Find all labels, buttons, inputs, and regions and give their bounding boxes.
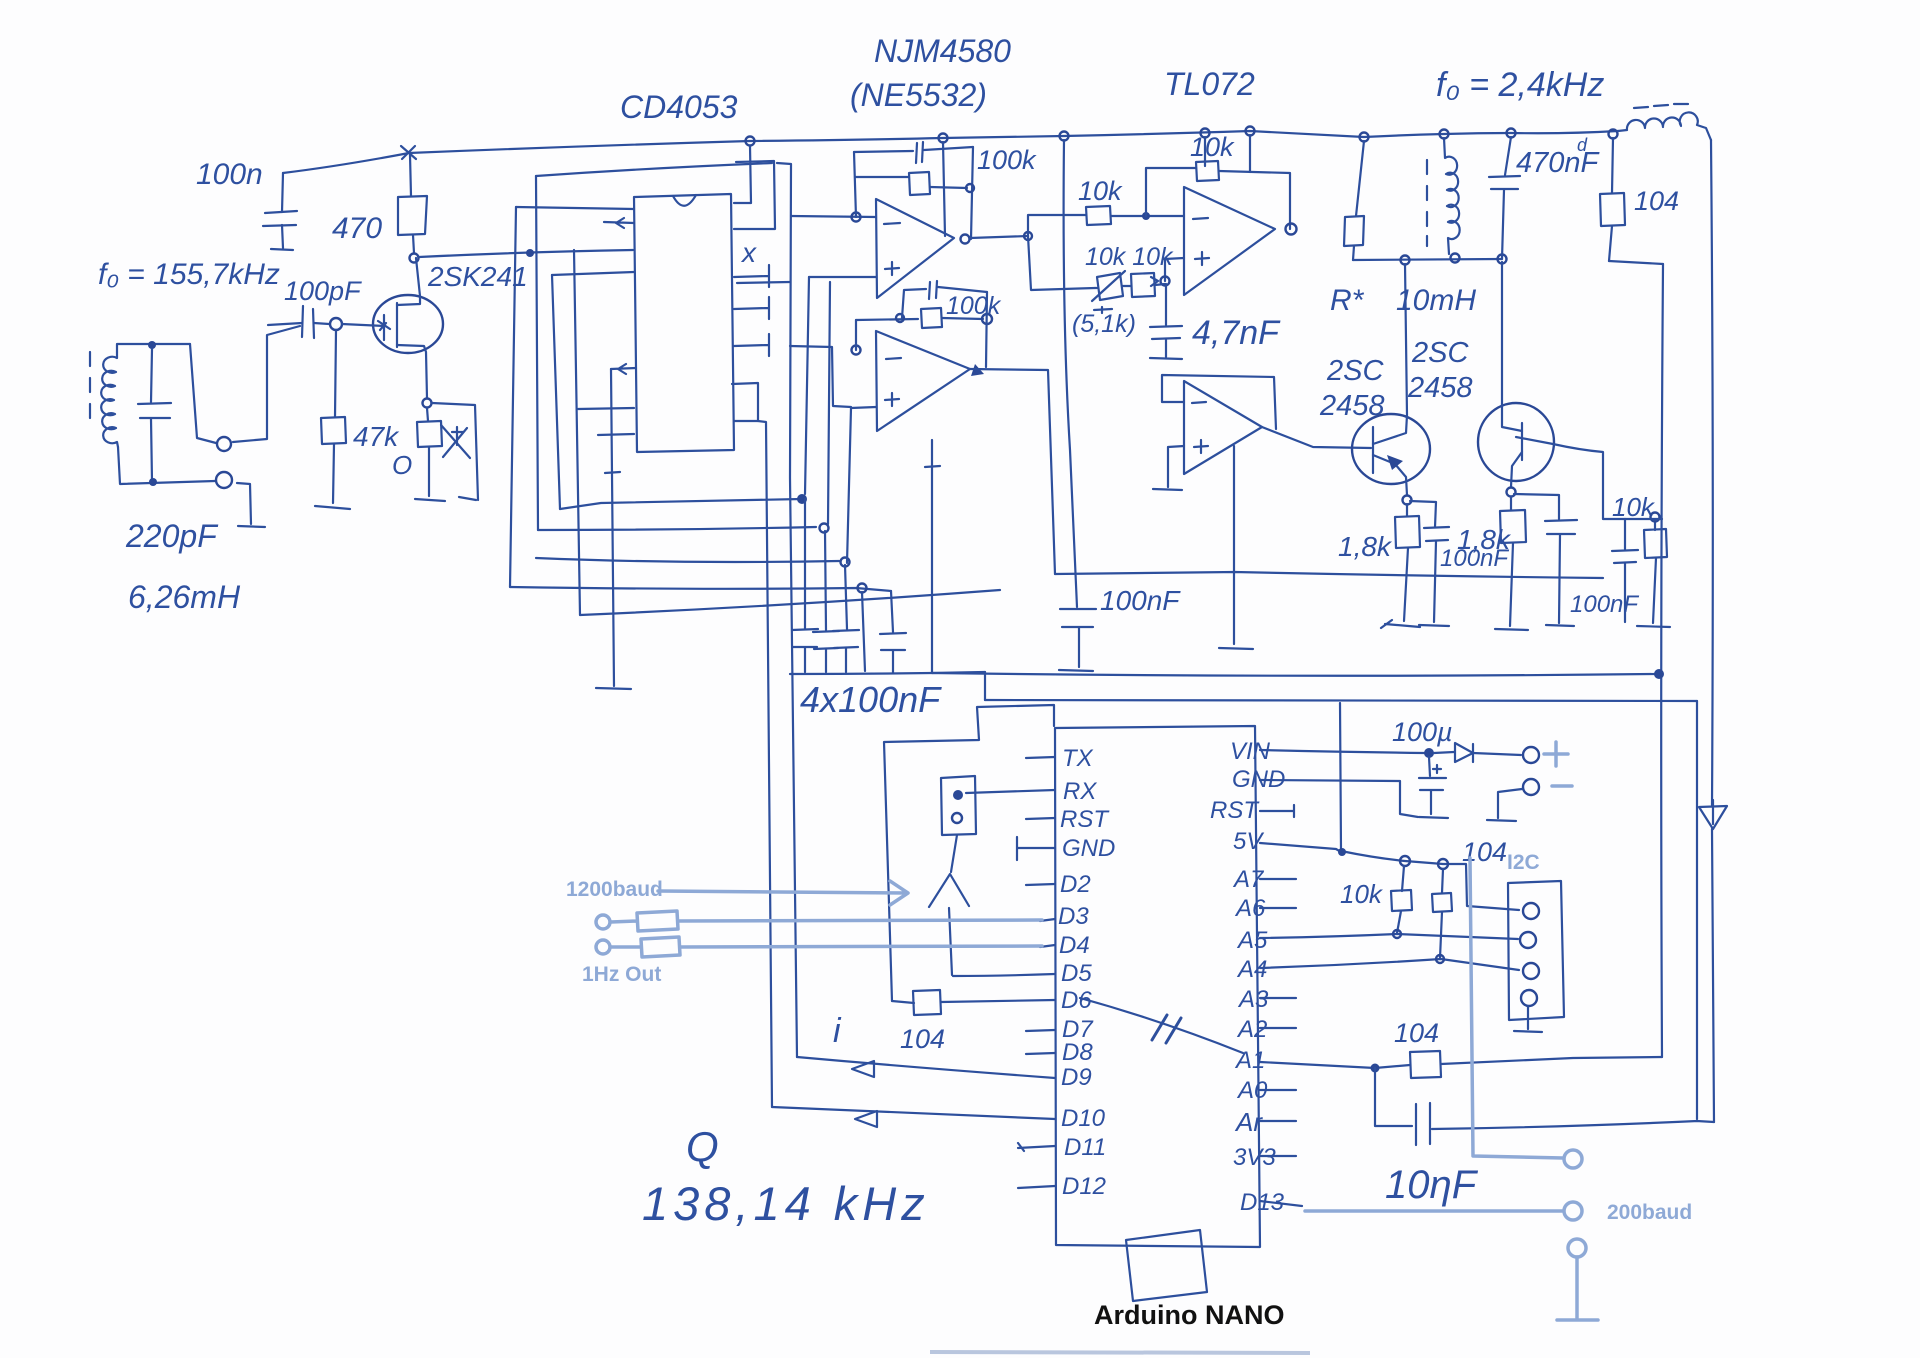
svg-text:Q: Q <box>686 1123 719 1170</box>
capacitor C3 220pF <box>138 349 171 481</box>
symbol minus terminal <box>1552 784 1572 788</box>
wire U2A plus input <box>809 276 876 278</box>
symbol U2B output arrow <box>971 364 984 376</box>
wire FET source to weave <box>432 403 478 500</box>
resistor R13 1,8k (Q2) <box>1495 497 1528 630</box>
wire cap C1 to top bus <box>283 153 409 173</box>
svg-text:x: x <box>740 237 757 268</box>
wire U2A output <box>970 236 1028 238</box>
svg-text:VIN: VIN <box>1230 738 1271 765</box>
terminal D3 input <box>596 915 610 929</box>
svg-text:D8: D8 <box>1062 1039 1093 1066</box>
scanner edge artifact <box>930 1352 1310 1353</box>
capacitor C15 100nF right <box>1612 519 1638 622</box>
capacitor C2 100pF <box>268 306 329 338</box>
wire U3B fb loop <box>1162 375 1276 429</box>
node bus j4b <box>1201 129 1210 138</box>
terminal D4 input <box>596 940 610 954</box>
chip left pin stub y409 <box>578 408 634 409</box>
node bus j6 <box>1440 130 1449 139</box>
svg-text:NJM4580: NJM4580 <box>874 33 1011 69</box>
capacitor C10 4,7nF <box>1150 284 1182 359</box>
capacitor C9 fb <box>902 281 987 318</box>
wire U2A fb left vertical <box>854 152 856 217</box>
resistor light D3 <box>611 911 1042 931</box>
node H_D <box>858 584 867 593</box>
connector I2C header <box>1508 881 1564 1032</box>
terminal minus circle <box>1523 779 1539 795</box>
wire U2A inv input <box>791 216 876 217</box>
svg-text:220pF: 220pF <box>125 518 219 554</box>
wire A-inv hook <box>777 163 797 1057</box>
svg-text:4,7nF: 4,7nF <box>1192 314 1281 352</box>
wire U3B output to Q1 base <box>1262 427 1371 448</box>
svg-text:A5: A5 <box>1236 927 1268 954</box>
wire to terminal circle upper <box>190 344 216 443</box>
svg-text:47k: 47k <box>353 421 400 452</box>
svg-text:100k: 100k <box>977 145 1037 175</box>
wire H_A ground drop right <box>1219 446 1253 649</box>
svg-text:(5,1k): (5,1k) <box>1072 310 1136 338</box>
resistor R7 10k fb <box>1196 161 1219 181</box>
node rail j3 <box>1498 255 1507 264</box>
svg-text:d: d <box>1577 135 1588 155</box>
terminal circle ground <box>1568 1239 1586 1257</box>
wire U3B plus ground <box>1153 446 1184 490</box>
node pullup2 top <box>1438 859 1448 869</box>
junction dot on wire <box>526 249 534 257</box>
resistor R16 10k pullup <box>1391 866 1412 933</box>
ground bracket lower terminal <box>237 483 265 527</box>
node gate circle <box>330 318 342 330</box>
svg-text:RX: RX <box>1063 778 1097 805</box>
svg-text:138,14 kHz: 138,14 kHz <box>642 1177 930 1230</box>
svg-text:2SC: 2SC <box>1326 355 1384 387</box>
op-amp U3A triangle <box>1184 187 1275 295</box>
node bus j1 <box>746 137 755 146</box>
resistor R14 10k right <box>1637 521 1670 627</box>
svg-text:1200baud: 1200baud <box>566 878 663 901</box>
svg-text:Arduino NANO: Arduino NANO <box>1094 1300 1284 1330</box>
symbol down-arrow triangle <box>1699 800 1727 829</box>
svg-text:100n: 100n <box>196 158 263 191</box>
capacitor C14 100nF (Q2) <box>1514 494 1577 626</box>
node bus j7 <box>1507 129 1516 138</box>
wire U2B inv feed via v832 <box>790 346 851 407</box>
capacitor C11 100nF mid <box>1059 609 1096 671</box>
svg-text:100pF: 100pF <box>284 276 362 306</box>
svg-text:A2: A2 <box>1236 1016 1267 1043</box>
wire right pin loop lower <box>732 383 758 421</box>
svg-text:D3: D3 <box>1058 903 1089 930</box>
junction dot tank bottom <box>149 478 157 486</box>
svg-text:A4: A4 <box>1236 956 1267 983</box>
svg-text:104: 104 <box>900 1024 945 1054</box>
capacitor C12 470nF <box>1489 137 1520 259</box>
wire vertical v536 <box>536 176 538 530</box>
wire v552 top to chip <box>552 272 634 275</box>
svg-text:A1: A1 <box>1234 1047 1265 1074</box>
svg-text:100µ: 100µ <box>1392 717 1453 747</box>
resistor R3 47k on gate <box>315 330 350 509</box>
node under R1 <box>410 254 419 263</box>
svg-text:470: 470 <box>332 212 382 245</box>
junction dot H_A <box>797 494 807 504</box>
wire vertical v765 (to D6) <box>758 421 772 1107</box>
wire top-left staircase <box>884 705 1054 1001</box>
node under FET source <box>423 399 432 408</box>
chip pin arrow stub y222 <box>604 218 634 228</box>
wire 1200baud arrow <box>658 881 908 905</box>
wire 5V rail to I2C <box>1341 851 1519 910</box>
resistor R4 100k fb <box>855 172 967 195</box>
resistor R15 104 (D6) <box>913 990 941 1015</box>
wire R5 to TL072 inv <box>1111 215 1184 217</box>
svg-text:f₀ = 2,4kHz: f₀ = 2,4kHz <box>1436 66 1604 104</box>
wire terminal to 100pF <box>233 326 300 442</box>
svg-text:GND: GND <box>1062 835 1115 862</box>
node bus j4 <box>1246 127 1255 136</box>
node Q1 emitter <box>1403 496 1412 505</box>
inductor L1 (antenna coil) <box>90 352 118 447</box>
svg-text:(NE5532): (NE5532) <box>850 77 987 113</box>
junction dot y677 end <box>1654 669 1664 679</box>
wire right vertical from y700 <box>1696 701 1698 1119</box>
svg-text:10mH: 10mH <box>1396 284 1476 317</box>
resistor R5 10k <box>1086 206 1111 225</box>
node U2A output <box>961 235 970 244</box>
capacitor C4 100nF (1 of 4) <box>792 499 818 672</box>
inductor L2 10mH <box>1427 138 1460 254</box>
capacitor C17 10nF <box>1375 1068 1714 1145</box>
wire D6 diagonal to A2 <box>1080 998 1243 1053</box>
wire R-star rail <box>1353 259 1502 260</box>
svg-text:R*: R* <box>1330 284 1365 317</box>
diode D1 <box>1434 743 1521 762</box>
wire bus j4 drop <box>1249 135 1251 172</box>
wire U3A fb rail <box>1146 168 1196 216</box>
wire H_A sub loop <box>1055 572 1603 578</box>
wire 200baud line <box>1305 1209 1562 1213</box>
svg-text:2SC: 2SC <box>1411 337 1469 369</box>
resistor R6 100k fb <box>856 308 983 328</box>
wire tank bottom <box>118 447 215 484</box>
wire v932 from opamp B plus <box>925 440 940 673</box>
svg-text:4x100nF: 4x100nF <box>800 679 942 720</box>
symbol minus bracket ground <box>1487 789 1522 821</box>
capacitor C13 100nF (Q1) <box>1410 501 1449 626</box>
wire R7 to output column <box>1219 171 1290 229</box>
node plus chain <box>1161 277 1170 286</box>
wire y700 rail drop to 5V rail <box>1340 703 1341 851</box>
node SDA junction <box>1393 930 1401 938</box>
wire v1028 up and 10k to TL072 <box>1028 215 1086 236</box>
svg-text:D5: D5 <box>1061 960 1092 987</box>
node U3A output <box>1286 224 1297 235</box>
node Q2 emitter <box>1507 488 1516 497</box>
svg-text:D4: D4 <box>1059 932 1090 959</box>
wire U2B fb right vertical <box>986 292 987 367</box>
svg-text:10k: 10k <box>1078 176 1123 206</box>
op-amp U3B triangle <box>1184 381 1262 474</box>
svg-text:1,8k: 1,8k <box>1457 524 1512 555</box>
svg-text:i: i <box>833 1012 842 1050</box>
wire vertical v574 <box>574 250 580 615</box>
wire top bus <box>409 131 1618 153</box>
svg-text:O: O <box>392 450 412 480</box>
terminal circle 200baud <box>1564 1202 1582 1220</box>
wire cap ground rail <box>790 672 985 674</box>
svg-text:TL072: TL072 <box>1164 66 1255 102</box>
pin T stub 1 <box>734 265 769 287</box>
wire H_D <box>510 587 891 591</box>
capacitor C1 100n <box>263 173 297 250</box>
wire vertical between caps <box>862 592 865 671</box>
wire 10k node line <box>1625 518 1662 520</box>
wire elbow to y700 rail <box>984 672 986 700</box>
node bus j2 <box>939 134 948 143</box>
resistor R10 (R*) <box>1344 216 1364 260</box>
svg-text:D9: D9 <box>1061 1064 1092 1091</box>
wire U2B output down <box>970 369 1055 574</box>
svg-text:10ηF: 10ηF <box>1385 1163 1479 1207</box>
wire node to CD4053 <box>419 250 633 257</box>
wire vertical v514 <box>510 207 516 587</box>
node fb right <box>982 314 992 324</box>
wire U2B inv jog to fb row <box>855 320 857 350</box>
IC U1 CD4053 body <box>634 194 734 452</box>
node output j <box>1024 232 1032 240</box>
svg-text:104: 104 <box>1634 186 1679 216</box>
svg-text:1,8k: 1,8k <box>1338 531 1393 562</box>
wire H_C <box>536 558 839 562</box>
ground bar v611 <box>596 688 631 689</box>
symbol double slash <box>1152 1015 1181 1043</box>
resistor R12 1,8k <box>1381 504 1420 628</box>
junction dot fb column <box>1142 212 1150 220</box>
transistor Q2 2SC2458 <box>1478 262 1554 487</box>
wire coil top to node <box>117 344 190 352</box>
wire vertical v611 with tick <box>605 369 620 686</box>
capacitor C5 100nF (2 of 4) <box>813 531 839 672</box>
node fb left <box>896 314 904 322</box>
resistor R1 470 <box>398 155 427 253</box>
wire y700 long rail <box>985 700 1697 701</box>
node rail j1 <box>1401 256 1410 265</box>
wire Q2 base right loop <box>1553 444 1625 519</box>
capacitor C6 100nF (3 of 4) <box>833 565 859 672</box>
svg-text:6,26mH: 6,26mH <box>128 579 241 615</box>
wire v536 top over chip to pin loop <box>536 163 772 176</box>
svg-text:100nF: 100nF <box>1570 591 1639 618</box>
node bus j3 <box>1060 132 1069 141</box>
terminal circle upper <box>217 437 231 451</box>
junction dot supply <box>1424 748 1434 758</box>
node H_C end <box>841 558 850 567</box>
op-amp U2B triangle <box>876 331 970 431</box>
svg-text:f₀ = 155,7kHz: f₀ = 155,7kHz <box>98 258 280 291</box>
svg-text:200baud: 200baud <box>1607 1201 1692 1224</box>
transistor Q 2SK241 <box>342 258 443 398</box>
svg-text:CD4053: CD4053 <box>620 89 738 125</box>
chip left pin stub y435 <box>598 434 634 435</box>
svg-text:5V: 5V <box>1233 828 1264 855</box>
wire y677 rail <box>932 673 1655 676</box>
svg-text:TX: TX <box>1062 745 1094 772</box>
svg-text:RST: RST <box>1210 797 1260 824</box>
svg-text:D12: D12 <box>1062 1173 1106 1200</box>
resistor R17 10k pullup <box>1432 869 1452 958</box>
wire long vertical x1662 <box>1661 264 1663 1057</box>
terminal circle lower <box>216 472 232 488</box>
terminal circle 10uF <box>1564 1150 1582 1168</box>
svg-text:D11: D11 <box>1064 1134 1106 1161</box>
wire plus chain <box>1095 277 1165 288</box>
connector USB box <box>1126 1230 1207 1301</box>
node rail j2 <box>1451 254 1460 263</box>
wire pin loop right top <box>734 161 775 229</box>
wire wedge down to D5 <box>949 908 952 975</box>
symbol arrow D10 <box>855 1111 877 1127</box>
junction dot tank top <box>148 341 156 349</box>
svg-text:1Hz Out: 1Hz Out <box>582 963 661 986</box>
node U2A inv <box>852 213 861 222</box>
svg-text:Ar: Ar <box>1234 1107 1263 1137</box>
junction dot 5V <box>1338 848 1346 856</box>
svg-text:RST: RST <box>1060 806 1110 833</box>
wire H_B <box>538 527 816 530</box>
svg-text:104: 104 <box>1394 1018 1439 1048</box>
symbol plus terminal <box>1544 742 1568 766</box>
wire vertical v552 <box>552 275 560 509</box>
node fb join <box>966 184 974 192</box>
wire ground stem <box>1557 1257 1598 1320</box>
inductor L3 top-right coil <box>1618 104 1711 140</box>
capacitor C7 100nF (4 of 4) <box>880 591 906 673</box>
wire U2A plus drop <box>828 282 830 524</box>
wire H_E <box>580 590 1000 615</box>
transistor Q1 2SC2458 <box>1352 264 1430 495</box>
node bus j8 <box>1609 130 1618 139</box>
symbol arrow D9 <box>852 1061 874 1077</box>
node X junction top bus <box>401 146 416 159</box>
svg-text:A3: A3 <box>1237 986 1269 1013</box>
pin T stub 2 <box>734 297 769 319</box>
node pullup1 top <box>1400 856 1410 866</box>
svg-text:10k: 10k <box>1190 132 1235 162</box>
svg-text:10k 10k: 10k 10k <box>1085 243 1174 271</box>
svg-text:10k: 10k <box>1340 879 1384 909</box>
junction dot A1 <box>1371 1064 1380 1073</box>
connector ISP 2-pin <box>941 776 976 872</box>
wire U2A plus drop to weave <box>805 277 809 494</box>
wire right edge vertical x1712 upper <box>1711 140 1713 806</box>
node U2B inv <box>852 346 861 355</box>
wire right edge vertical x1712 lower <box>1712 829 1714 1122</box>
capacitor C8 fb <box>854 142 973 163</box>
wire v514 top to chip pin <box>516 207 634 209</box>
node bus j5 <box>1360 133 1369 142</box>
wire bus j2 drop <box>943 142 945 236</box>
wire U3A plus input <box>1165 258 1184 281</box>
node 10k top <box>1651 513 1660 522</box>
svg-text:100nF: 100nF <box>1100 585 1181 616</box>
svg-text:3V3: 3V3 <box>1233 1144 1276 1171</box>
node SCL junction <box>1436 955 1444 963</box>
ground stub under X <box>459 497 476 500</box>
resistor light D4 <box>611 937 1042 957</box>
wire chip pin to v790 <box>737 282 790 283</box>
svg-text:I2C: I2C <box>1507 851 1540 874</box>
resistor R8 10k (tilted, crossed) <box>1092 271 1125 313</box>
wire v1028 down to plus chain <box>1028 236 1095 290</box>
svg-text:2SK241: 2SK241 <box>427 261 528 292</box>
capacitor C16 100u <box>1419 757 1448 818</box>
wire bus j5 drop to R* <box>1356 141 1364 216</box>
svg-text:D10: D10 <box>1061 1105 1106 1132</box>
svg-text:D2: D2 <box>1060 871 1091 898</box>
pin T stub 3 <box>734 334 769 356</box>
resistor R9 10k <box>1131 273 1155 297</box>
wire U2A fb right vertical <box>971 147 973 239</box>
resistor R18 104 (A1) <box>1375 1051 1662 1078</box>
svg-text:2458: 2458 <box>1407 372 1473 404</box>
wire bus j1 down to pin <box>734 146 751 203</box>
chip left pin arrow y369 <box>611 364 636 374</box>
svg-text:470nF: 470nF <box>1516 147 1601 179</box>
wire light vertical to 10uF terminal <box>1470 858 1563 1158</box>
wire 104 to long vertical <box>1609 261 1663 264</box>
IC U4 Arduino NANO body <box>1055 726 1260 1247</box>
wire bus j3 long drop <box>1064 140 1077 607</box>
resistor R11 104 top right <box>1600 138 1625 261</box>
wire H_A long horizontal <box>560 499 802 509</box>
wire U2B plus loop <box>847 407 876 563</box>
crossed-out varicap X <box>441 425 470 458</box>
terminal plus circle <box>1523 747 1539 763</box>
symbol wedge antenna <box>929 874 969 907</box>
resistor R2 (source) <box>415 408 445 501</box>
svg-text:100k: 100k <box>946 292 1002 320</box>
op-amp U2A triangle <box>876 199 954 298</box>
node H_B end <box>820 524 829 533</box>
